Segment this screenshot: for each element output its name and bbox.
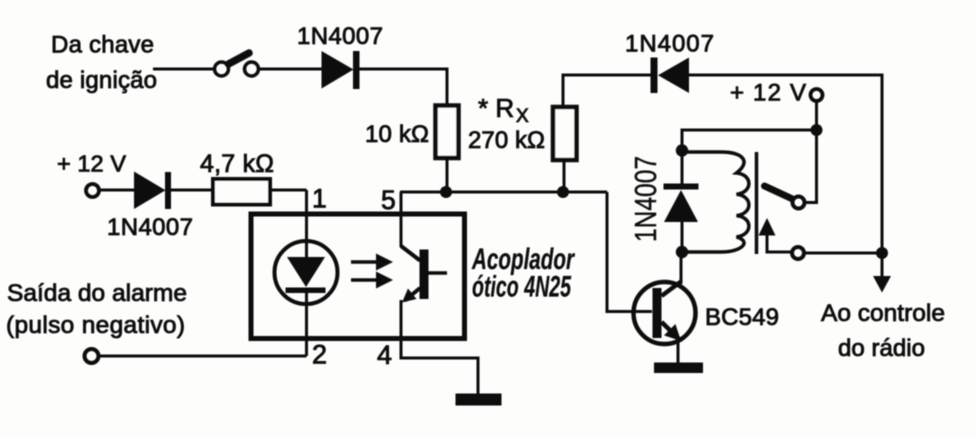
svg-text:1N4007: 1N4007 (297, 23, 383, 50)
wire R3 to pin 1 (270, 189, 307, 192)
wire Rx top to top-right line (563, 75, 651, 107)
terminal +12V left (86, 184, 99, 197)
wire Rx bottom to node bus (563, 160, 566, 192)
svg-text:4: 4 (377, 340, 392, 370)
svg-text:Ao controle: Ao controle (821, 300, 945, 327)
wire +12V node to coil branch (682, 130, 817, 150)
resistor R1 10 kΩ (436, 106, 459, 159)
svg-text:1N4007: 1N4007 (625, 31, 714, 58)
pin 4 wire to ground (401, 300, 478, 395)
label Acoplador ótico 4N25 (471, 243, 575, 304)
svg-text:270 kΩ: 270 kΩ (468, 127, 545, 154)
svg-text:5: 5 (381, 185, 396, 215)
terminal +12V right (811, 89, 823, 101)
relay NC contact terminal (793, 197, 805, 209)
diode D1 1N4007 (top left) (322, 51, 360, 89)
resistor R3 4,7 kΩ (213, 179, 270, 205)
svg-text:4,7 kΩ: 4,7 kΩ (200, 150, 274, 178)
label Saída do alarme (pulso negativo) (6, 280, 187, 339)
ground (optocoupler pin 4) (456, 394, 502, 406)
resistor R2 Rx 270 kΩ (553, 107, 577, 160)
svg-text:10 kΩ: 10 kΩ (365, 121, 429, 148)
wire emitter to ground (677, 341, 680, 363)
optocoupler U1 box (251, 214, 465, 339)
pin 1 wire (305, 190, 308, 257)
svg-text:de ignição: de ignição (46, 67, 157, 94)
wire terminal to D2 (99, 189, 134, 192)
wire terminal down (815, 101, 818, 131)
LED of optocoupler (275, 241, 338, 304)
svg-text:X: X (516, 106, 529, 127)
wire ignition input to switch (153, 68, 215, 71)
node dot output (876, 247, 888, 259)
svg-text:1N4007: 1N4007 (107, 214, 193, 241)
svg-text:Saída do alarme: Saída do alarme (7, 280, 187, 307)
switch S1 (ignition key contact) (215, 53, 259, 76)
svg-text:Da chave: Da chave (51, 32, 154, 59)
relay core (755, 152, 759, 254)
wire terminal to pin 2 (99, 355, 307, 358)
wire D2 to R3 (171, 189, 213, 192)
pin 2 wire (305, 293, 308, 356)
terminal saída do alarme (85, 349, 99, 363)
svg-text:(pulso negativo): (pulso negativo) (6, 312, 185, 339)
node dot at R1 (440, 186, 452, 198)
wire collector to coil node (680, 252, 683, 284)
diode D4 1N4007 (flyback) (664, 150, 699, 252)
wire +12V node to relay NC contact (804, 130, 817, 203)
svg-text:1N4007: 1N4007 (628, 156, 663, 242)
svg-text:BC549: BC549 (705, 304, 779, 331)
label * Rx (478, 93, 529, 127)
wire R1 to node bus (446, 157, 449, 192)
relay armature arrow (759, 218, 793, 252)
svg-text:* R: * R (478, 93, 514, 123)
svg-text:+ 12 V: + 12 V (730, 80, 806, 107)
node dot +12V (811, 124, 823, 136)
svg-text:1: 1 (312, 184, 327, 214)
node dot coil top (676, 144, 688, 156)
relay NO contact terminal (792, 247, 804, 259)
wire NO contact to output node (804, 252, 883, 255)
relay K1 coil (682, 152, 749, 252)
node dot at Rx (557, 186, 569, 198)
node bus wire (400, 191, 607, 194)
diode D2 1N4007 (left, +12V) (134, 172, 171, 210)
svg-text:2: 2 (312, 340, 327, 370)
label Ao controle do rádio (821, 300, 945, 362)
output arrow down (873, 253, 891, 293)
light arrows (351, 254, 393, 289)
diode D3 1N4007 (top right) (651, 58, 690, 94)
ground (Q1 emitter) (654, 363, 703, 374)
svg-text:ótico 4N25: ótico 4N25 (472, 271, 572, 304)
wire switch to D1 (259, 68, 323, 71)
wire bus to Q1 base (607, 192, 652, 312)
wire D3 to right rail (689, 75, 882, 253)
label Da chave de ignição (46, 32, 157, 95)
pin 5 wire (400, 192, 403, 247)
node dot coil bottom (676, 246, 688, 258)
relay NC contact arm (765, 186, 792, 199)
phototransistor of optocoupler (401, 246, 447, 303)
svg-text:+ 12 V: + 12 V (57, 151, 126, 177)
svg-text:do rádio: do rádio (838, 335, 925, 362)
wire D1 to R1 (358, 69, 447, 106)
transistor Q1 BC549 (634, 282, 696, 345)
